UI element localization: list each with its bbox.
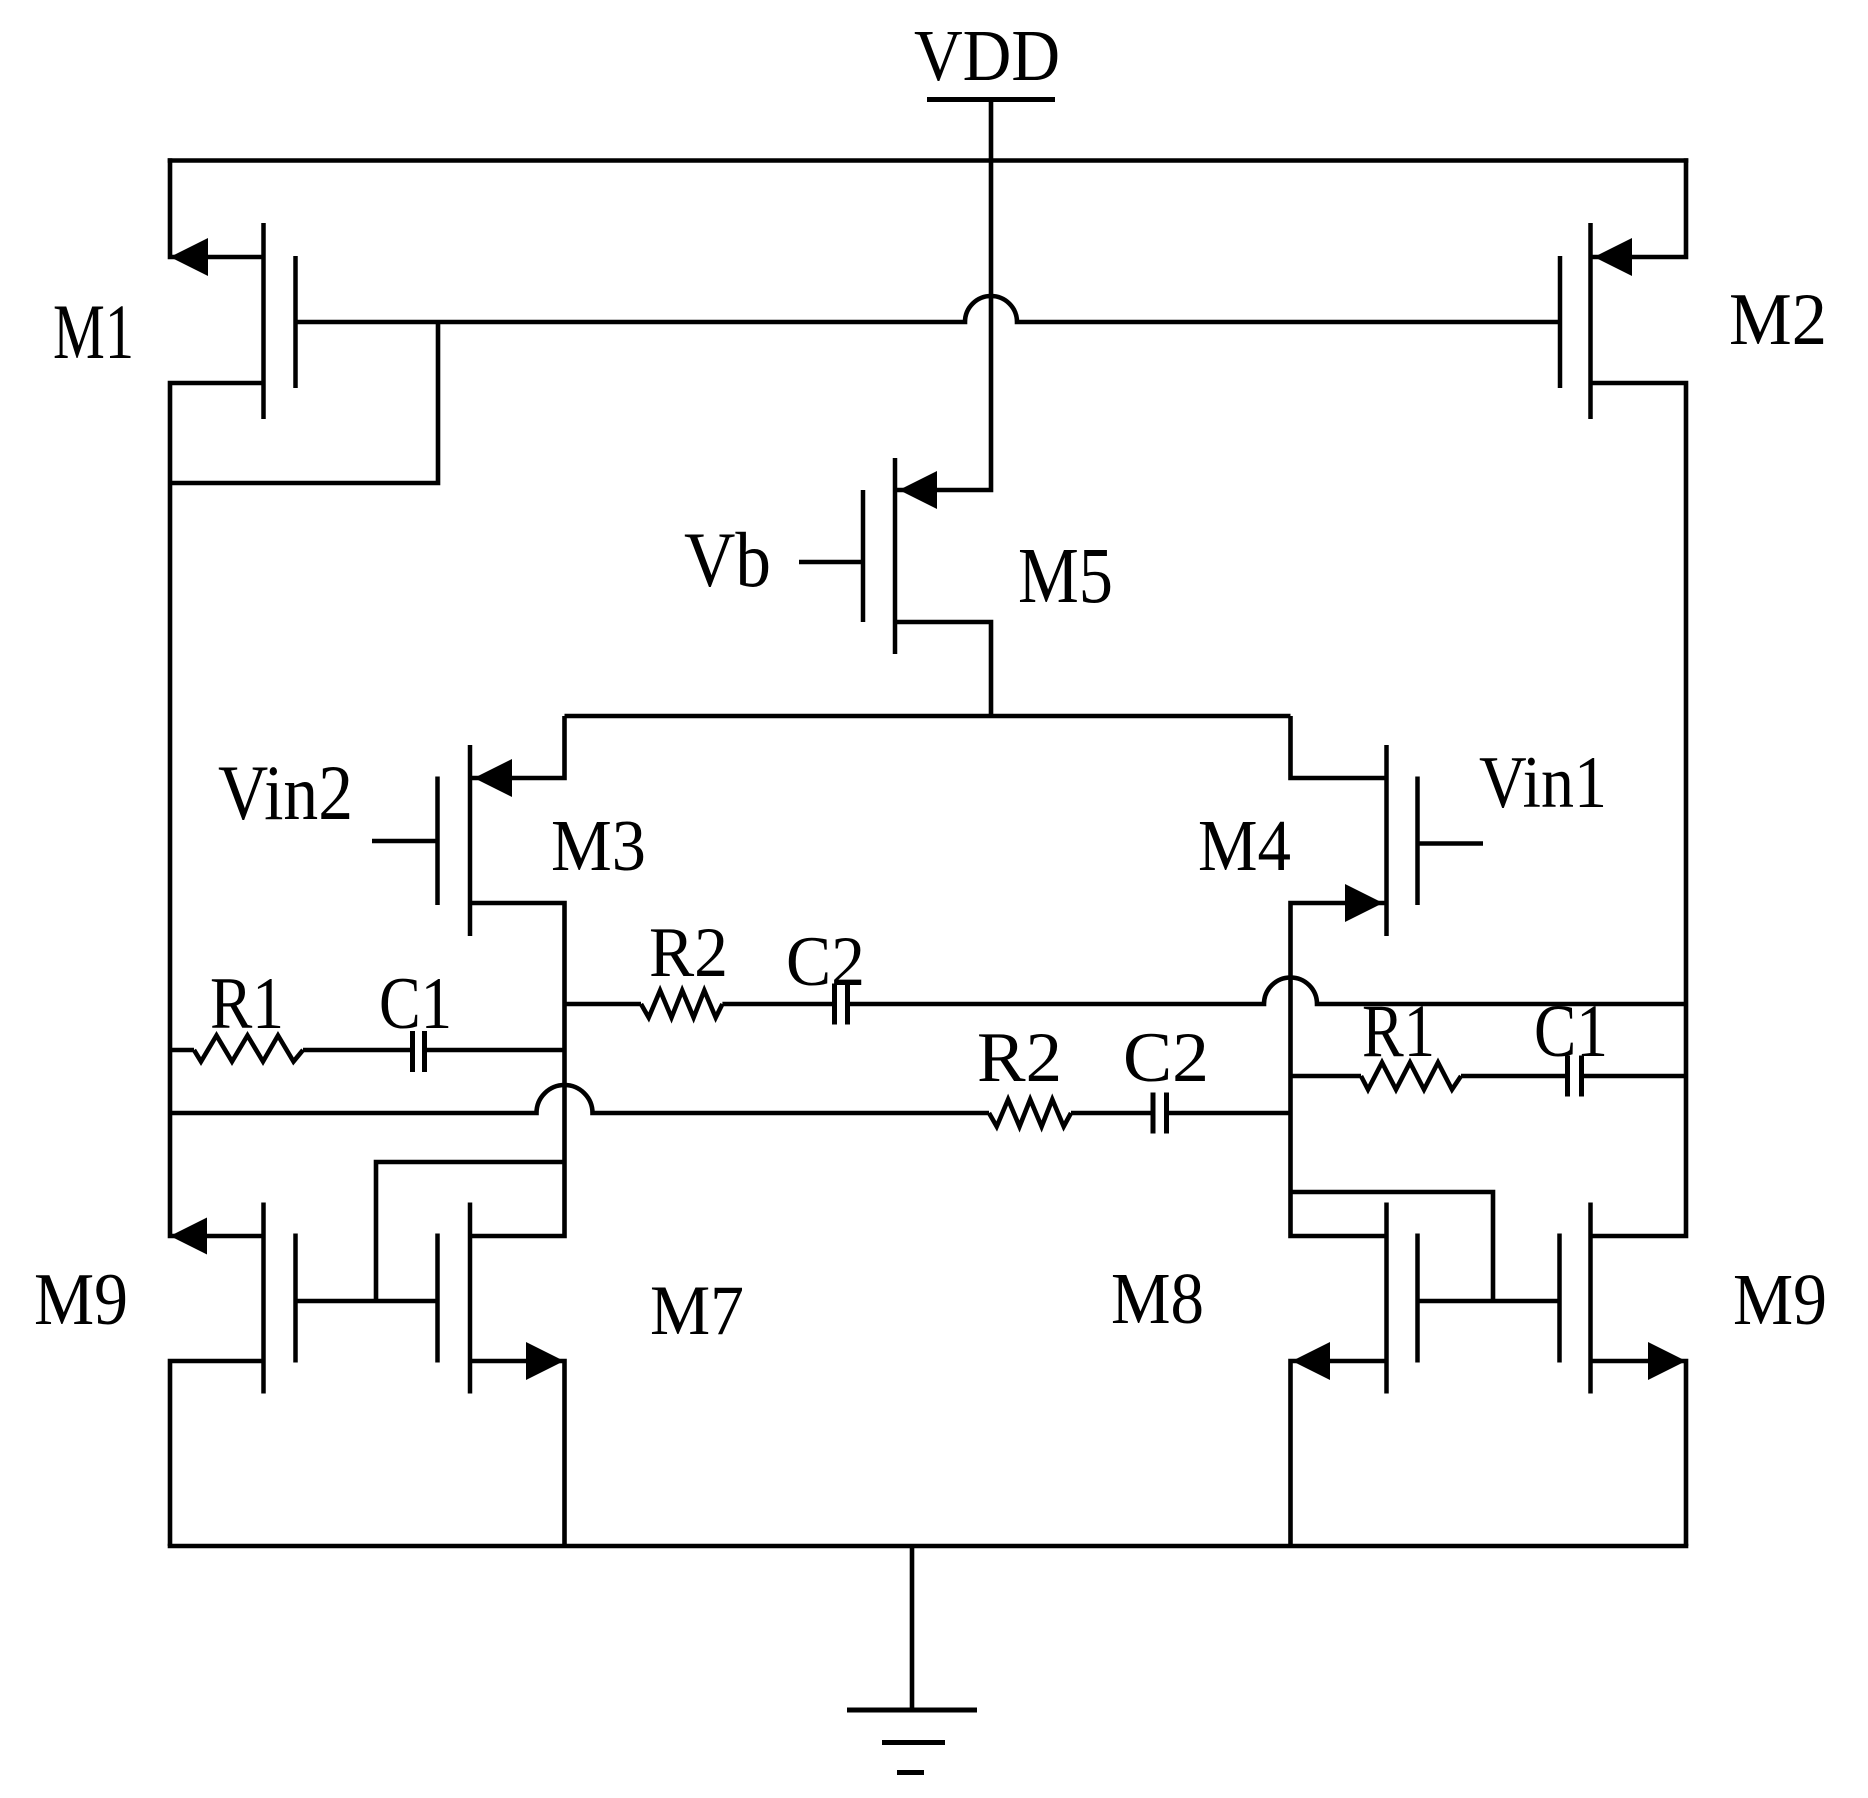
wire Vin1 gate stub: [1418, 841, 1484, 846]
VDD terminal bar: [927, 97, 1055, 102]
svg-text:C2: C2: [786, 923, 865, 1001]
resistor R2 (row A): [641, 991, 722, 1018]
wire M1 gate-drain diode connection: [170, 322, 438, 483]
wire M8 gate-drain diode connection: [1291, 1192, 1494, 1301]
wire ground stem: [910, 1546, 915, 1710]
wire M9 left source to ground rail: [170, 1361, 264, 1546]
svg-text:R2: R2: [977, 1019, 1062, 1097]
wire M3 source drop: [470, 716, 565, 778]
transistor M9 right: [1648, 1342, 1686, 1380]
svg-text:R1: R1: [210, 963, 284, 1045]
wire M4 drain and right output node down to M8 drain: [1291, 903, 1387, 1236]
transistor M5: [899, 471, 937, 509]
wire M1 drain, left rail down, M9 top terminal: [170, 383, 264, 1236]
svg-text:M1: M1: [53, 288, 134, 375]
svg-text:M2: M2: [1729, 279, 1827, 361]
wire M7 source to ground rail: [470, 1361, 565, 1546]
wire M7 gate-drain diode connection: [376, 1162, 565, 1301]
svg-text:M3: M3: [551, 805, 646, 886]
wire M2 drain, right rail down, M9 right top terminal: [1591, 383, 1687, 1236]
wire row B: R1 C1 from left rail to left node: [170, 1048, 194, 1053]
capacitor C2 (row C): [1151, 1093, 1156, 1134]
svg-text:C1: C1: [379, 963, 452, 1045]
wire M9/M7 gate rail: [296, 1299, 438, 1304]
wire Vin2 gate stub: [372, 839, 438, 844]
svg-text:M8: M8: [1111, 1258, 1204, 1339]
transistor M3: [474, 759, 512, 797]
svg-text:M7: M7: [650, 1272, 744, 1350]
resistor R1 (right): [1361, 1063, 1461, 1090]
transistor M7: [526, 1342, 564, 1380]
wire M4 source drop: [1291, 716, 1387, 778]
resistor R2 (row C): [989, 1100, 1071, 1127]
wire tail rail: [565, 714, 1291, 719]
wire M1/M2 gate line with hop over VDD stem: [296, 296, 1561, 322]
wire M2 source to right rail: [1591, 158, 1687, 257]
wire top rail: [168, 158, 1689, 163]
capacitor C1 (left): [410, 1031, 415, 1072]
transistor M8: [1292, 1342, 1330, 1380]
capacitor C1 (right): [1565, 1056, 1570, 1097]
svg-text:M4: M4: [1198, 805, 1291, 886]
capacitor C2 (row A): [832, 984, 837, 1025]
wire row C: R2 C2 from left rail to right node with hop: [170, 1085, 989, 1113]
wire row D: R1 C1 from right node to right rail: [1291, 1074, 1362, 1079]
transistor M1: [170, 238, 208, 276]
wire M8 source to ground rail: [1291, 1361, 1387, 1546]
svg-text:M9: M9: [34, 1259, 128, 1341]
wire ground rail: [168, 1544, 1689, 1549]
svg-text:M5: M5: [1018, 533, 1113, 620]
wire M3 drain and left output node down to M7 drain: [470, 903, 565, 1236]
transistor M4: [1345, 884, 1383, 922]
svg-text:C1: C1: [1534, 990, 1608, 1073]
svg-text:R2: R2: [649, 914, 728, 992]
svg-text:Vin2: Vin2: [218, 749, 353, 836]
wire M9 right source segment: [1591, 1361, 1687, 1546]
wire row A: R2 C2 from left node to right rail with hop: [565, 1002, 642, 1007]
svg-text:M9: M9: [1733, 1259, 1827, 1340]
svg-text:R1: R1: [1362, 990, 1435, 1073]
svg-text:Vin1: Vin1: [1479, 742, 1607, 824]
resistor R1 (left): [194, 1036, 303, 1062]
svg-text:Vb: Vb: [684, 516, 771, 603]
transistor M2: [1594, 238, 1632, 276]
wire M5 drain down to tail: [895, 622, 991, 716]
wire Vb gate stub: [799, 560, 863, 565]
transistor M9 left: [170, 1218, 207, 1255]
svg-text:C2: C2: [1123, 1019, 1209, 1097]
wire VDD stem down to M5 source: [895, 102, 991, 490]
wire M8/M9 gate rail: [1418, 1299, 1560, 1304]
wire M1 source to left rail: [170, 158, 264, 257]
svg-text:VDD: VDD: [914, 15, 1060, 96]
ground symbol: [847, 1708, 977, 1713]
